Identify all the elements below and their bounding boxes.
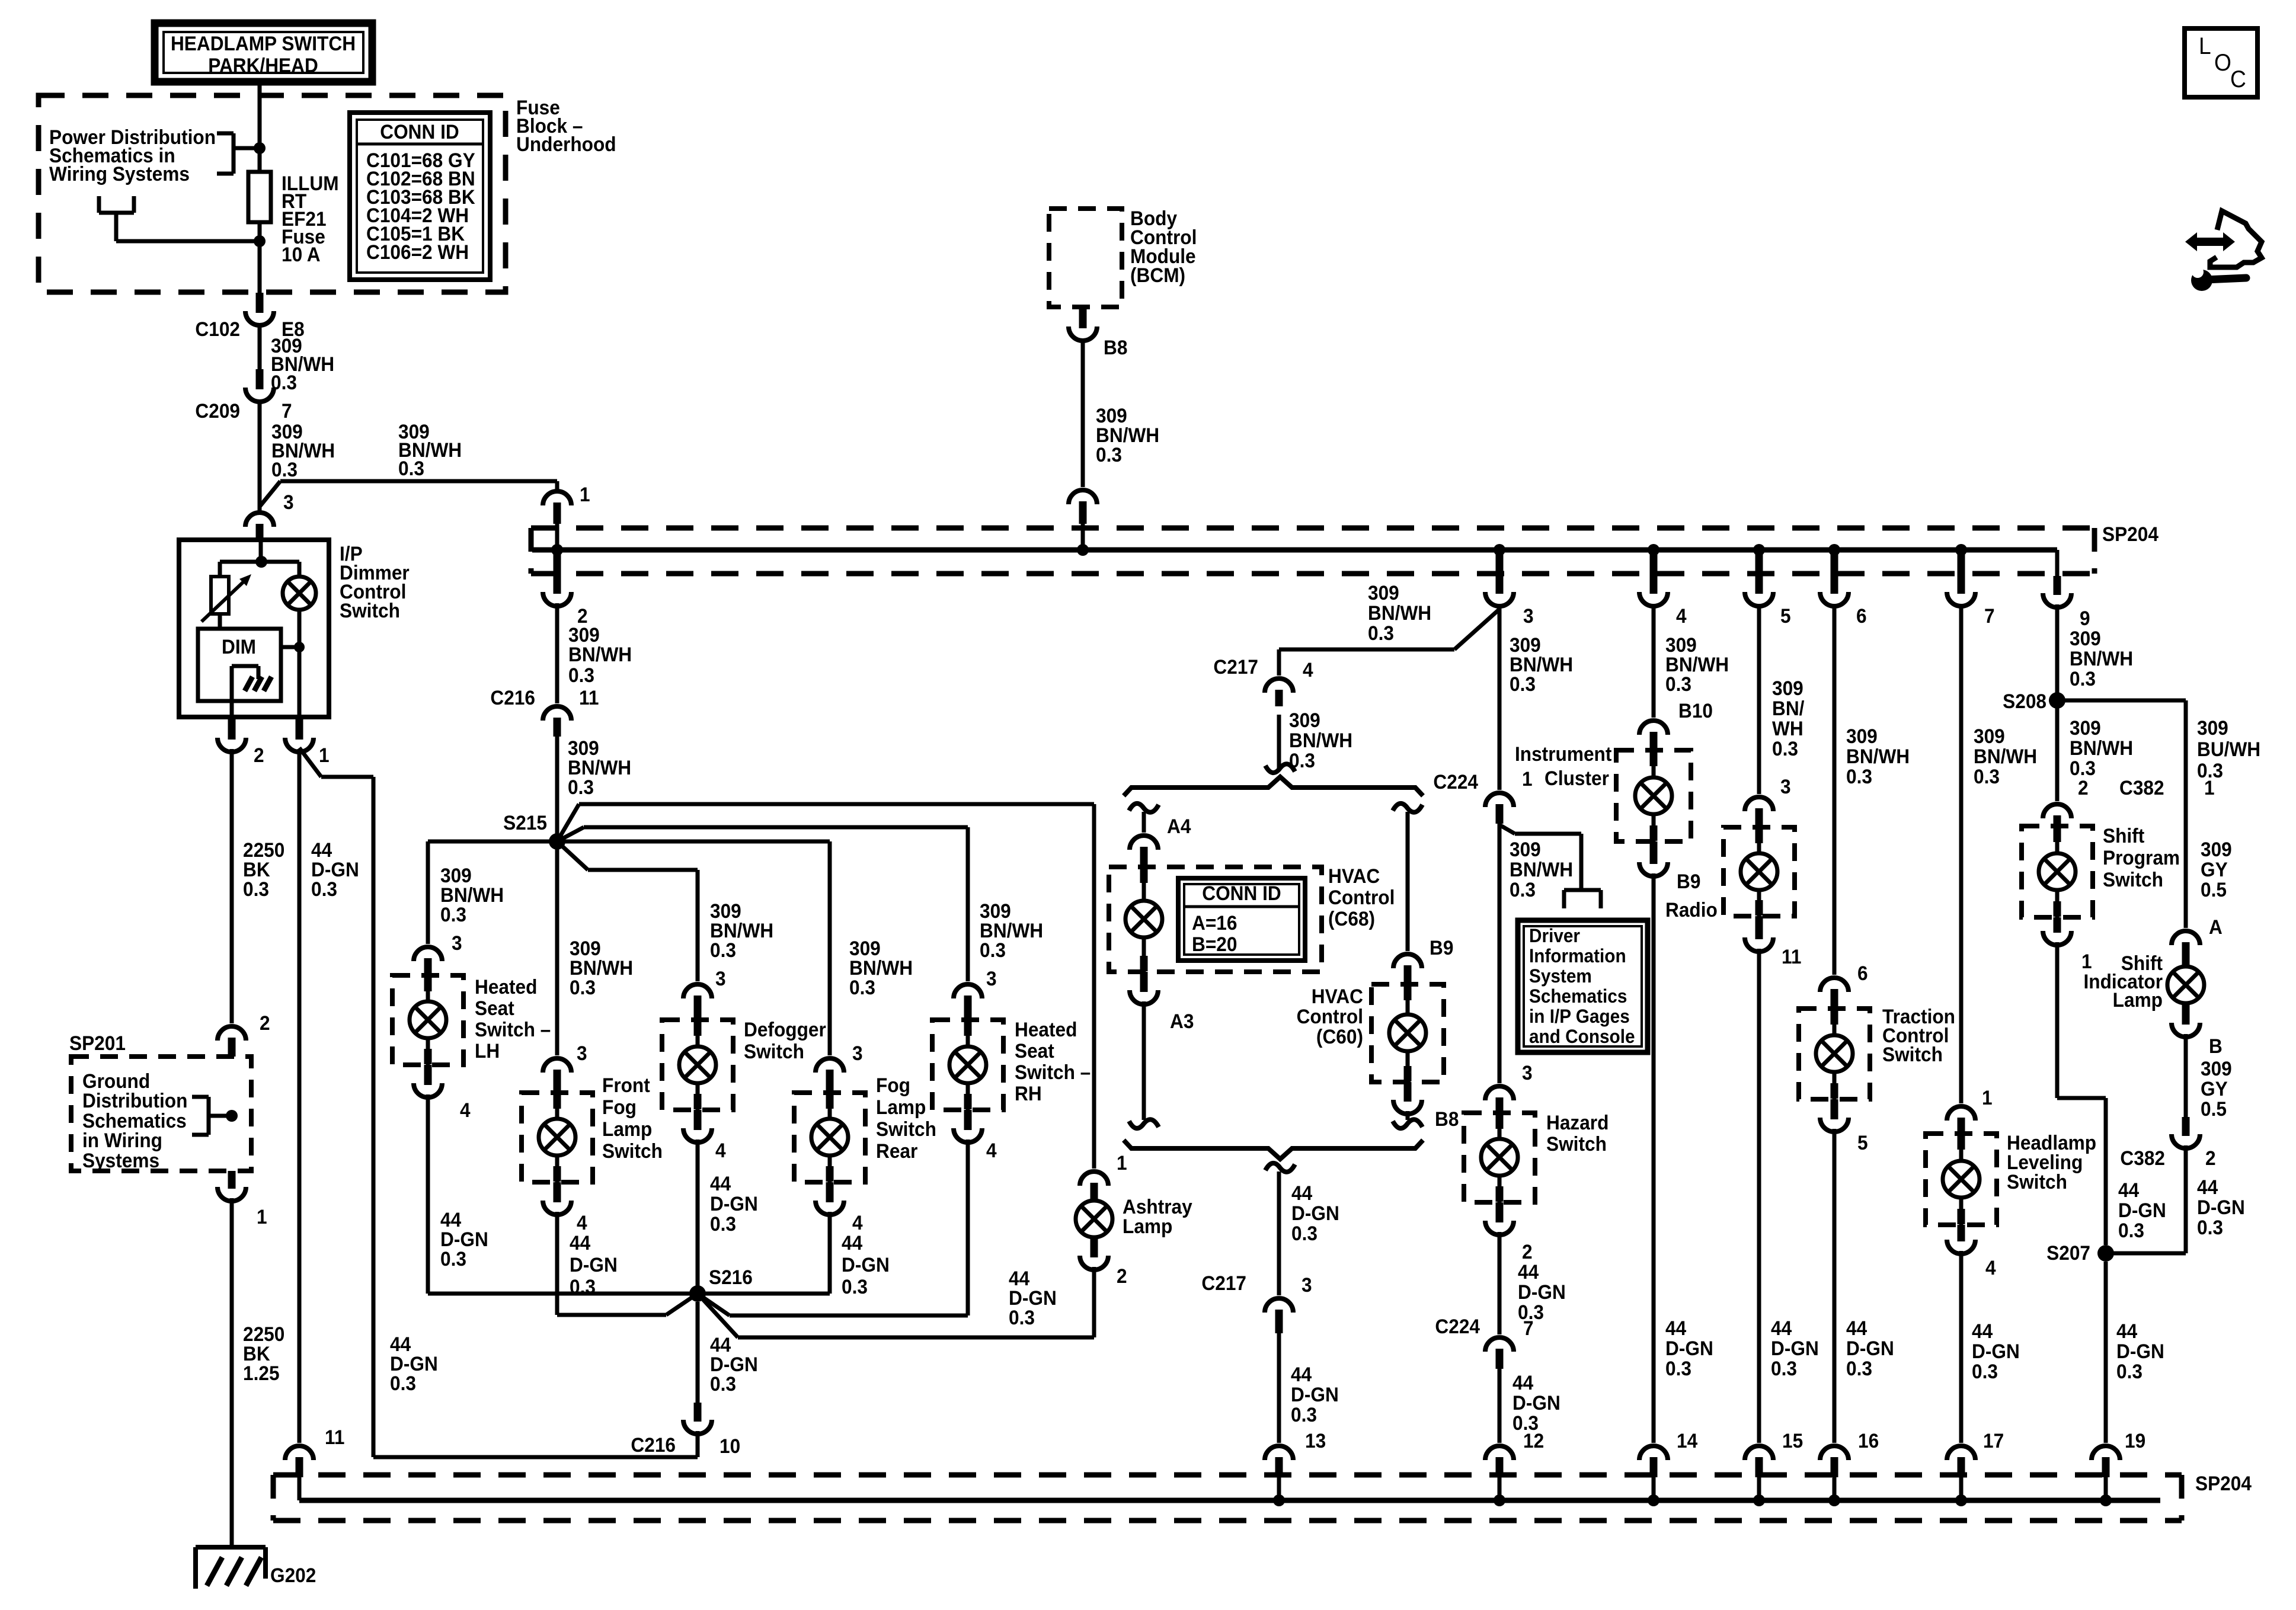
svg-text:1.25: 1.25	[243, 1362, 280, 1384]
svg-text:C382: C382	[2120, 1147, 2165, 1169]
svg-text:0.3: 0.3	[2197, 1216, 2223, 1238]
svg-text:C216: C216	[631, 1433, 676, 1456]
svg-text:44: 44	[1972, 1320, 1993, 1342]
svg-text:3: 3	[1523, 604, 1534, 627]
svg-text:309: 309	[2070, 716, 2101, 739]
svg-text:309: 309	[1289, 709, 1320, 731]
svg-text:BN/WH: BN/WH	[1368, 601, 1431, 624]
svg-text:7: 7	[282, 399, 292, 422]
svg-text:0.3: 0.3	[1368, 622, 1394, 644]
svg-text:309: 309	[1846, 725, 1878, 747]
svg-text:0.3: 0.3	[390, 1372, 416, 1394]
svg-text:11: 11	[1782, 945, 1801, 968]
svg-text:0.3: 0.3	[1291, 1222, 1318, 1244]
svg-text:7: 7	[1984, 604, 1995, 627]
svg-text:309: 309	[2197, 716, 2228, 739]
svg-text:C217: C217	[1213, 655, 1258, 678]
svg-text:3: 3	[452, 932, 462, 954]
svg-text:A4: A4	[1167, 815, 1191, 837]
svg-text:Heated: Heated	[1015, 1018, 1077, 1041]
svg-text:B8: B8	[1104, 336, 1127, 359]
svg-text:C106=2 WH: C106=2 WH	[366, 241, 469, 263]
svg-text:0.3: 0.3	[440, 1247, 466, 1270]
svg-text:DIM: DIM	[222, 635, 256, 658]
svg-text:0.3: 0.3	[1846, 1357, 1872, 1379]
svg-text:7: 7	[1523, 1317, 1534, 1339]
svg-text:4: 4	[1303, 658, 1313, 681]
svg-text:S216: S216	[709, 1266, 753, 1288]
svg-text:D-GN: D-GN	[1972, 1340, 2020, 1362]
svg-text:0.3: 0.3	[568, 664, 594, 686]
svg-text:O: O	[2214, 50, 2231, 76]
svg-text:S215: S215	[503, 811, 547, 834]
svg-text:0.3: 0.3	[2116, 1360, 2142, 1382]
svg-text:44: 44	[2116, 1320, 2138, 1342]
svg-text:2: 2	[2078, 776, 2089, 799]
svg-text:CONN ID: CONN ID	[1202, 882, 1281, 904]
svg-text:44: 44	[1846, 1317, 1868, 1339]
svg-text:0.3: 0.3	[1846, 765, 1872, 788]
svg-text:11: 11	[579, 686, 599, 709]
svg-text:WH: WH	[1772, 717, 1803, 740]
svg-text:1: 1	[1982, 1086, 1993, 1109]
svg-text:9: 9	[2080, 607, 2090, 629]
svg-text:C224: C224	[1435, 1315, 1480, 1337]
svg-text:0.3: 0.3	[710, 1212, 736, 1235]
svg-text:0.3: 0.3	[311, 878, 337, 900]
svg-text:Lamp: Lamp	[876, 1096, 926, 1118]
svg-text:Switch: Switch	[602, 1140, 663, 1162]
svg-text:0.3: 0.3	[1510, 673, 1536, 695]
svg-text:0.5: 0.5	[2201, 878, 2227, 901]
svg-text:SP204: SP204	[2195, 1472, 2252, 1494]
svg-text:0.3: 0.3	[1665, 1357, 1691, 1379]
svg-text:309: 309	[1974, 725, 2005, 747]
svg-text:44: 44	[1291, 1182, 1313, 1204]
svg-text:GY: GY	[2201, 1077, 2228, 1100]
svg-text:3: 3	[1780, 775, 1791, 798]
svg-text:2: 2	[2205, 1147, 2216, 1169]
svg-text:A: A	[2209, 916, 2223, 938]
svg-text:Switch: Switch	[2007, 1170, 2067, 1193]
svg-text:0.3: 0.3	[849, 976, 875, 998]
svg-text:Instrument: Instrument	[1515, 742, 1611, 765]
svg-text:6: 6	[1856, 604, 1867, 627]
svg-text:0.3: 0.3	[980, 939, 1006, 961]
svg-text:Fog: Fog	[876, 1074, 910, 1096]
svg-text:S207: S207	[2046, 1241, 2090, 1264]
svg-text:and Console: and Console	[1529, 1026, 1635, 1047]
svg-text:Switch –: Switch –	[1015, 1061, 1091, 1083]
svg-text:Wiring Systems: Wiring Systems	[49, 162, 190, 185]
svg-text:BN/WH: BN/WH	[1846, 745, 1910, 767]
svg-text:14: 14	[1677, 1429, 1698, 1452]
svg-text:0.3: 0.3	[398, 457, 424, 479]
svg-text:16: 16	[1858, 1429, 1879, 1452]
svg-text:12: 12	[1523, 1429, 1544, 1452]
svg-text:4: 4	[1985, 1256, 1996, 1279]
svg-text:B=20: B=20	[1192, 933, 1237, 955]
svg-text:3: 3	[1522, 1061, 1533, 1084]
svg-text:System: System	[1529, 965, 1592, 987]
svg-text:44: 44	[710, 1172, 731, 1195]
svg-text:D-GN: D-GN	[1665, 1337, 1713, 1359]
svg-text:Rear: Rear	[876, 1140, 918, 1162]
svg-text:0.3: 0.3	[2118, 1219, 2144, 1241]
svg-text:0.3: 0.3	[568, 776, 594, 798]
svg-text:SP204: SP204	[2102, 523, 2159, 545]
svg-text:BN/WH: BN/WH	[1289, 729, 1352, 751]
svg-text:4: 4	[852, 1211, 863, 1234]
svg-text:B: B	[2209, 1035, 2223, 1057]
svg-text:Systems: Systems	[82, 1149, 159, 1172]
svg-text:GY: GY	[2201, 858, 2228, 881]
svg-text:Hazard: Hazard	[1546, 1111, 1609, 1134]
svg-text:Front: Front	[602, 1074, 650, 1096]
svg-text:10 A: 10 A	[282, 243, 321, 265]
svg-text:Program: Program	[2103, 846, 2180, 869]
svg-text:3: 3	[986, 967, 997, 990]
svg-text:0.3: 0.3	[1096, 443, 1122, 466]
svg-text:in I/P Gages: in I/P Gages	[1529, 1006, 1630, 1027]
svg-text:D-GN: D-GN	[2197, 1196, 2245, 1218]
svg-text:Radio: Radio	[1665, 898, 1718, 921]
svg-text:6: 6	[1857, 962, 1868, 984]
svg-text:(C60): (C60)	[1316, 1025, 1363, 1048]
svg-text:0.3: 0.3	[1972, 1360, 1998, 1382]
svg-text:17: 17	[1983, 1429, 2004, 1452]
svg-text:2: 2	[254, 744, 264, 766]
svg-text:13: 13	[1305, 1429, 1326, 1452]
svg-text:3: 3	[577, 1042, 587, 1064]
svg-text:1: 1	[2204, 776, 2215, 799]
svg-text:D-GN: D-GN	[1512, 1391, 1560, 1414]
svg-text:0.3: 0.3	[243, 878, 269, 900]
svg-text:44: 44	[1512, 1371, 1534, 1394]
svg-text:1: 1	[2081, 950, 2092, 972]
svg-text:B10: B10	[1678, 699, 1713, 722]
svg-text:A=16: A=16	[1192, 911, 1237, 934]
svg-text:D-GN: D-GN	[1291, 1383, 1339, 1406]
svg-text:44: 44	[2197, 1176, 2218, 1198]
svg-text:Lamp: Lamp	[602, 1118, 652, 1140]
svg-text:A3: A3	[1170, 1010, 1194, 1032]
svg-text:4: 4	[715, 1139, 726, 1161]
svg-text:C209: C209	[195, 399, 240, 422]
svg-text:CONN ID: CONN ID	[380, 120, 459, 143]
svg-text:0.3: 0.3	[1510, 878, 1536, 901]
svg-text:0.3: 0.3	[1771, 1357, 1797, 1379]
svg-text:C217: C217	[1201, 1272, 1246, 1294]
svg-text:309: 309	[1510, 838, 1541, 860]
svg-text:Seat: Seat	[1015, 1039, 1054, 1062]
svg-text:1: 1	[1522, 767, 1533, 790]
svg-text:Fog: Fog	[602, 1096, 637, 1118]
svg-text:G202: G202	[270, 1564, 316, 1586]
svg-text:44: 44	[1771, 1317, 1792, 1339]
svg-text:Shift: Shift	[2103, 824, 2144, 847]
svg-text:Distribution: Distribution	[82, 1089, 187, 1112]
svg-text:Information: Information	[1529, 945, 1626, 966]
svg-text:C224: C224	[1433, 770, 1478, 793]
svg-text:2: 2	[1117, 1265, 1127, 1287]
svg-text:C102: C102	[195, 318, 240, 340]
svg-text:S208: S208	[2003, 690, 2046, 712]
svg-text:0.3: 0.3	[1009, 1306, 1035, 1329]
svg-text:4: 4	[577, 1211, 587, 1234]
svg-text:D-GN: D-GN	[1291, 1202, 1339, 1224]
svg-text:Schematics: Schematics	[1529, 985, 1627, 1007]
svg-text:D-GN: D-GN	[1771, 1337, 1819, 1359]
svg-text:11: 11	[325, 1426, 344, 1448]
svg-text:0.3: 0.3	[1291, 1403, 1317, 1426]
svg-text:44: 44	[1665, 1317, 1687, 1339]
svg-text:15: 15	[1782, 1429, 1803, 1452]
svg-text:44: 44	[1291, 1363, 1312, 1385]
svg-text:C382: C382	[2119, 776, 2164, 799]
svg-text:44: 44	[1518, 1260, 1539, 1283]
svg-text:BN/WH: BN/WH	[1510, 858, 1573, 881]
svg-text:309: 309	[2201, 1057, 2232, 1080]
svg-text:in Wiring: in Wiring	[82, 1129, 162, 1151]
svg-text:3: 3	[1302, 1273, 1312, 1296]
svg-text:309: 309	[2070, 627, 2101, 649]
svg-text:D-GN: D-GN	[2118, 1199, 2166, 1221]
svg-text:(C68): (C68)	[1328, 907, 1375, 930]
svg-text:309: 309	[1772, 677, 1803, 699]
svg-text:LH: LH	[475, 1039, 500, 1062]
svg-text:Cluster: Cluster	[1544, 767, 1609, 789]
svg-text:Lamp: Lamp	[1123, 1215, 1172, 1237]
svg-text:BN/WH: BN/WH	[2070, 647, 2133, 670]
svg-text:Defogger: Defogger	[744, 1018, 826, 1041]
svg-text:D-GN: D-GN	[842, 1253, 890, 1276]
svg-text:44: 44	[842, 1231, 863, 1254]
svg-text:BN/WH: BN/WH	[2070, 737, 2133, 759]
svg-text:Switch: Switch	[2103, 868, 2163, 891]
svg-text:0.3: 0.3	[1772, 737, 1798, 760]
svg-text:D-GN: D-GN	[2116, 1340, 2164, 1362]
svg-text:0.3: 0.3	[1665, 673, 1691, 695]
svg-text:Switch: Switch	[1546, 1132, 1607, 1155]
svg-text:D-GN: D-GN	[710, 1192, 758, 1215]
svg-text:0.3: 0.3	[440, 903, 466, 926]
svg-text:44: 44	[2118, 1179, 2140, 1201]
svg-text:3: 3	[715, 967, 726, 990]
svg-text:Switch: Switch	[1882, 1043, 1943, 1065]
svg-text:Driver: Driver	[1529, 925, 1580, 946]
svg-text:44: 44	[570, 1231, 591, 1254]
svg-text:Switch: Switch	[876, 1118, 936, 1140]
svg-text:HEADLAMP SWITCH: HEADLAMP SWITCH	[171, 32, 356, 55]
svg-text:B8: B8	[1435, 1108, 1459, 1130]
svg-text:Switch: Switch	[744, 1040, 804, 1062]
svg-text:3: 3	[852, 1042, 863, 1064]
svg-text:C: C	[2230, 66, 2246, 93]
svg-text:B9: B9	[1677, 870, 1700, 892]
svg-text:309: 309	[1368, 581, 1399, 604]
svg-text:BN/WH: BN/WH	[1974, 745, 2037, 767]
svg-text:0.3: 0.3	[710, 1372, 736, 1395]
svg-text:1: 1	[257, 1205, 267, 1228]
svg-text:5: 5	[1857, 1131, 1868, 1154]
svg-text:4: 4	[1676, 604, 1687, 627]
svg-text:PARK/HEAD: PARK/HEAD	[208, 54, 318, 76]
svg-text:1: 1	[1117, 1151, 1127, 1174]
svg-text:RH: RH	[1015, 1082, 1042, 1105]
svg-text:0.3: 0.3	[271, 458, 298, 481]
svg-text:1: 1	[580, 483, 590, 505]
svg-text:0.3: 0.3	[1974, 765, 2000, 788]
svg-text:Underhood: Underhood	[516, 133, 616, 155]
svg-text:BN/WH: BN/WH	[568, 643, 632, 665]
svg-text:2: 2	[1522, 1240, 1533, 1263]
svg-text:0.3: 0.3	[570, 976, 596, 998]
svg-text:Control: Control	[1297, 1005, 1363, 1028]
svg-text:Switch –: Switch –	[475, 1018, 551, 1041]
svg-text:0.3: 0.3	[2070, 667, 2096, 690]
svg-text:D-GN: D-GN	[1846, 1337, 1894, 1359]
svg-text:Lamp: Lamp	[2113, 988, 2163, 1011]
svg-text:Seat: Seat	[475, 997, 514, 1019]
svg-text:0.3: 0.3	[842, 1275, 868, 1298]
svg-text:1: 1	[319, 744, 330, 766]
svg-text:D-GN: D-GN	[570, 1253, 618, 1276]
svg-text:C216: C216	[490, 686, 535, 709]
svg-text:Control: Control	[1328, 886, 1395, 908]
svg-text:3: 3	[283, 491, 294, 513]
svg-text:BU/WH: BU/WH	[2197, 738, 2260, 760]
svg-text:0.3: 0.3	[570, 1275, 596, 1298]
svg-text:10: 10	[720, 1435, 740, 1457]
svg-text:Heated: Heated	[475, 975, 537, 998]
svg-text:2: 2	[260, 1012, 270, 1034]
svg-text:B9: B9	[1430, 936, 1453, 959]
svg-text:SP201: SP201	[69, 1032, 126, 1054]
svg-text:19: 19	[2125, 1429, 2145, 1452]
svg-text:D-GN: D-GN	[1518, 1281, 1566, 1303]
svg-text:Switch: Switch	[340, 599, 400, 622]
svg-text:HVAC: HVAC	[1312, 985, 1363, 1007]
svg-text:309: 309	[2201, 838, 2232, 860]
svg-text:4: 4	[986, 1139, 997, 1161]
svg-text:BN/: BN/	[1772, 697, 1804, 719]
svg-text:4: 4	[460, 1099, 471, 1121]
svg-text:0.3: 0.3	[710, 939, 736, 961]
svg-text:0.5: 0.5	[2201, 1097, 2227, 1120]
svg-text:L: L	[2199, 33, 2211, 60]
svg-text:HVAC: HVAC	[1328, 865, 1380, 887]
svg-text:5: 5	[1780, 604, 1791, 627]
svg-text:(BCM): (BCM)	[1130, 264, 1185, 286]
